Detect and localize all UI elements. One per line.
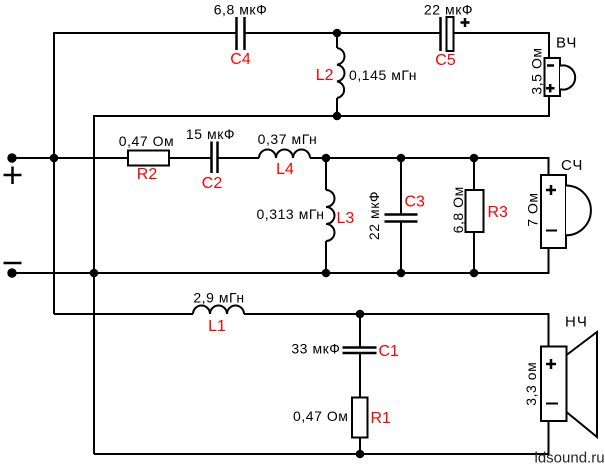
wire tweeter bottom [548,96,550,117]
inductor L3 [256,158,354,273]
node R3 bottom [470,269,479,278]
capacitor C3 [366,158,425,273]
svg-text:ВЧ: ВЧ [556,35,577,52]
wire C2 to L4 [218,157,260,159]
svg-text:3,3 ом: 3,3 ом [523,362,539,406]
svg-text:C4: C4 [230,51,251,68]
svg-text:0,313 мГн: 0,313 мГн [256,206,324,222]
wire top rail middle segment [245,32,441,34]
svg-text:0,47 Ом: 0,47 Ом [293,408,349,424]
svg-text:7 Ом: 7 Ом [525,192,541,226]
svg-text:33 мкФ: 33 мкФ [291,341,340,357]
node L2 top junction [333,29,342,38]
terminal minus [4,263,22,278]
svg-text:6,8 мкФ: 6,8 мкФ [214,2,268,18]
speaker СЧ (midrange) [525,157,591,248]
terminal plus [4,153,22,184]
node plus column junction [50,154,59,163]
svg-text:R3: R3 [488,204,509,221]
wire top rail left segment [54,32,236,34]
svg-text:L1: L1 [208,318,226,335]
svg-text:L4: L4 [276,161,294,178]
inductor L4 [258,131,318,178]
svg-text:C5: C5 [435,52,456,69]
svg-text:C2: C2 [202,175,223,192]
node C3 top [397,154,406,163]
node L3 bottom [322,269,331,278]
wire top rail right segment [454,32,551,34]
node R3 top [470,154,479,163]
node L2 bottom junction [333,112,342,121]
svg-text:ldsound.ru: ldsound.ru [535,450,605,466]
svg-text:2,9 мГн: 2,9 мГн [193,290,244,306]
capacitor C1 [291,314,399,398]
inductor L2 [316,33,417,116]
svg-text:6,8 Ом: 6,8 Ом [450,186,466,233]
svg-text:C1: C1 [379,343,400,360]
wire to tweeter top [548,32,550,58]
wire woofer feed [54,313,193,315]
wire minus rail [12,272,549,274]
wire R2 to C2 [169,157,211,159]
inductor L1 [193,290,245,336]
wire L1 to НЧ [244,314,549,347]
wire bottom rail [94,421,549,454]
node R1 bottom [356,450,365,459]
node L3 top [322,154,331,163]
wire СЧ bottom to minus rail [548,248,550,274]
svg-text:L2: L2 [316,67,334,84]
wire mid rail to СЧ [310,158,549,175]
svg-text:0,37 мГн: 0,37 мГн [258,131,318,147]
capacitor C4 [214,2,268,69]
wire ВЧ bottom rail [94,116,550,454]
svg-text:15 мкФ: 15 мкФ [186,126,235,142]
capacitor C2 [186,126,235,192]
svg-text:L3: L3 [337,210,355,227]
svg-text:0,47 Ом: 0,47 Ом [119,133,175,149]
svg-text:3,5 Ом: 3,5 Ом [529,47,545,94]
speaker НЧ (woofer) [523,314,597,438]
svg-text:22 мкФ: 22 мкФ [424,2,473,18]
resistor R1 [293,398,391,455]
capacitor C5 [424,2,473,70]
resistor R3 [450,158,508,273]
node C1 top [356,310,365,319]
svg-text:R2: R2 [137,166,158,183]
watermark ldsound.ru [535,450,605,466]
resistor R2 [119,133,175,183]
speaker ВЧ (tweeter) [529,35,578,97]
svg-text:22 мкФ: 22 мкФ [366,191,382,240]
node C3 bottom [397,269,406,278]
svg-text:0,145 мГн: 0,145 мГн [349,67,417,83]
svg-text:R1: R1 [371,410,392,427]
wire left plus column [53,32,55,314]
node minus rail x94 junction [90,269,99,278]
svg-text:НЧ: НЧ [565,314,588,331]
svg-text:СЧ: СЧ [561,157,583,174]
svg-text:C3: C3 [405,194,426,211]
wire plus rail [12,157,128,159]
